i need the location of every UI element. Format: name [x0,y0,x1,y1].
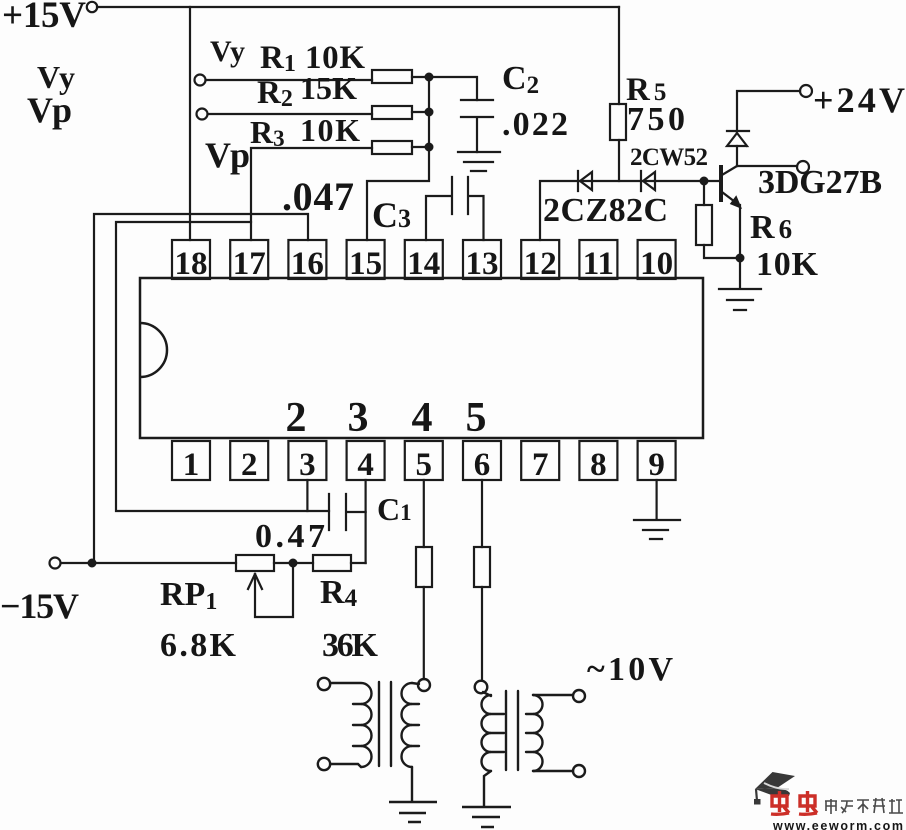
wire R2 to bus [412,111,429,113]
ground C2 [458,152,500,171]
svg-text:~10V: ~10V [587,651,673,688]
svg-text:3: 3 [299,447,316,483]
resistor R2 [372,106,412,119]
svg-text:11: 11 [583,246,614,282]
svg-text:3: 3 [348,395,369,441]
transistor Q1 3DG27B [721,166,740,207]
node R3 bus junction [426,144,433,151]
label .022 [502,106,568,143]
svg-text:8: 8 [590,447,607,483]
svg-text:18: 18 [175,246,208,282]
terminal +15V [87,2,97,12]
svg-text:−15V: −15V [0,586,79,626]
svg-text:16: 16 [291,246,324,282]
svg-text:1: 1 [183,447,200,483]
terminal +24V [800,85,812,97]
svg-text:0.47: 0.47 [255,518,325,555]
resistor R5 [610,104,626,140]
svg-text:7: 7 [532,447,549,483]
logo site name [825,798,903,814]
label +15V [2,0,86,36]
wire RP1 to R4 [274,562,313,564]
label 0.47 [255,518,325,555]
ground pin 9 [634,520,680,539]
label RP1 [160,576,217,615]
wire pin 4 line [365,480,367,563]
svg-text:10K: 10K [300,112,360,148]
resistor R1 [372,70,412,83]
wire pin 6 line upper [481,480,483,547]
wire collector to output terminal [737,165,797,167]
resistor R6 [696,205,712,245]
capacitor C2 [461,100,493,152]
label 10K R3 [300,112,360,148]
wire pin 9 ground lead [655,480,657,519]
pin 16 [288,240,326,282]
svg-text:750: 750 [627,101,685,138]
wire pin 5 line lower [423,587,425,679]
label Vp node [205,135,250,175]
resistor R4 [313,555,351,571]
pin 3 [288,441,326,483]
pin 10 [638,240,676,282]
svg-text:+24V: +24V [813,80,905,120]
svg-text:3DG27B: 3DG27B [758,164,882,201]
wire pin 6 line lower [481,587,483,680]
IC body U1 [140,278,703,438]
wire R1 to bus [412,76,429,78]
svg-text:Vp: Vp [27,90,72,130]
ground T2 [462,807,511,827]
svg-text:15: 15 [349,246,382,282]
wire Vy input to R1 [206,79,372,81]
wire pin 17 branch to pin 3 [116,222,329,511]
wire R6 bottom lead to emitter [704,245,740,258]
node internal block 5 [466,395,487,441]
wire feedback pin 16 line [94,214,308,563]
label Vy input [37,59,75,95]
svg-text:5: 5 [466,395,487,441]
svg-text:14: 14 [407,246,440,282]
terminal Vy [195,75,206,86]
pin 7 [521,441,559,483]
wire collector riser [736,146,738,166]
label C1 [377,491,412,527]
node base junction [701,178,708,185]
wire -15V rail [61,562,236,564]
svg-text:2: 2 [286,395,307,441]
pin 6 [463,441,501,483]
wire Vp input to R2 [208,113,372,115]
logo graduation cap [754,772,795,805]
terminal Vp [197,109,208,120]
ground emitter [719,289,761,310]
label C2 [502,60,539,99]
label R2 [257,75,293,112]
wire +15V branch to pin 18 [189,7,191,240]
wiper arm RP1 [248,563,293,617]
pin 17 [230,240,268,282]
wire R3 left lead to pin 17 [251,148,372,240]
wire R4 to pin 4 line [351,562,366,564]
node R1 bus junction [426,74,433,81]
diode 2CZ82C left [578,171,592,191]
svg-text:www.eeworm.com: www.eeworm.com [772,819,903,830]
resistor on pin 5 line [416,547,432,587]
svg-text:17: 17 [233,246,266,282]
label C3 [372,195,411,235]
wire emitter down [739,205,741,288]
svg-text:2CW52: 2CW52 [630,144,708,171]
diode D3 above transistor [727,131,749,146]
wire R6 top lead [703,181,705,205]
pin 8 [579,441,617,483]
pin 18 [172,240,210,282]
label .047 [282,174,354,219]
wire summing bus to pin 15 [367,77,429,240]
wire R5 to diode chain [618,140,620,181]
label 36K [322,627,379,664]
svg-text:15K: 15K [300,70,357,106]
label Vy node [210,35,245,68]
svg-text:12: 12 [524,246,557,282]
terminal collector output [797,161,809,173]
wire +24V feed [737,91,800,131]
pin 11 [579,240,617,282]
label R4 [320,574,358,612]
label 2CW52 [630,144,708,171]
resistor on pin 6 line [474,547,490,587]
label 6.8K [160,627,237,664]
label -15V [0,586,79,626]
svg-text:Vp: Vp [205,135,250,175]
wire C2 top lead [429,77,477,100]
transformer T2 [475,681,585,806]
label 3DG27B [758,164,882,201]
svg-text:+15V: +15V [2,0,86,36]
potentiometer RP1 [236,555,274,571]
wire R3 to bus [412,146,429,148]
label 10K R1 [305,40,365,76]
svg-text:2CZ82C: 2CZ82C [543,192,668,229]
label 15K R2 [300,70,357,106]
pin 1 [172,441,210,483]
label Vp input [27,90,72,130]
node internal block 2 [286,395,307,441]
svg-text:2: 2 [241,447,258,483]
svg-text:4: 4 [357,447,374,483]
svg-text:.047: .047 [282,174,354,219]
node R2 bus junction [426,109,433,116]
capacitor C1 [329,494,366,530]
svg-text:9: 9 [648,447,665,483]
pin 13 [463,240,501,282]
label R3 [250,114,285,151]
svg-text:.022: .022 [502,106,568,143]
node wiper junction [290,560,297,567]
svg-text:10K: 10K [756,246,819,283]
capacitor C3 between pin 14 and pin 13 [426,177,484,240]
node -15V junction [89,560,96,567]
pin 12 [521,240,559,282]
pin 9 [638,441,676,483]
pin 2 [230,441,268,483]
label 10K R6 [756,246,819,283]
diode 2CW52 right [641,171,655,191]
svg-text:13: 13 [466,246,499,282]
svg-text:6: 6 [474,447,491,483]
label 750 [627,101,685,138]
wire pin 5 line upper [423,480,425,547]
svg-text:5: 5 [416,447,433,483]
resistor R3 [372,141,412,154]
label +24V [813,80,905,120]
node internal block 3 [348,395,369,441]
node internal block 4 [412,395,433,441]
pin 14 [405,240,443,282]
svg-text:6.8K: 6.8K [160,627,237,664]
wire +15V top rail [97,6,619,8]
svg-text:4: 4 [412,395,433,441]
svg-text:Vy: Vy [210,35,245,68]
label 2CZ82C [543,192,668,229]
label ~10V [587,651,673,688]
label R1 [260,40,296,77]
label R6 [750,209,792,246]
svg-text:R6: R6 [750,209,792,246]
logo url [772,819,903,830]
svg-text:10: 10 [640,246,673,282]
node emitter junction [737,255,744,262]
ground T1 [389,802,437,822]
logo chongchong characters [771,791,817,814]
wire pin 12 riser and diode chain [540,181,719,240]
terminal -15V [50,558,61,569]
wire R5 drop from rail [618,7,620,104]
wire pin 3 riser [306,480,308,511]
transformer T1 [318,678,430,801]
svg-text:36K: 36K [322,627,379,664]
pin 15 [347,240,385,282]
label R5 [626,72,666,108]
pin 5 [405,441,443,483]
pin 4 [347,441,385,483]
